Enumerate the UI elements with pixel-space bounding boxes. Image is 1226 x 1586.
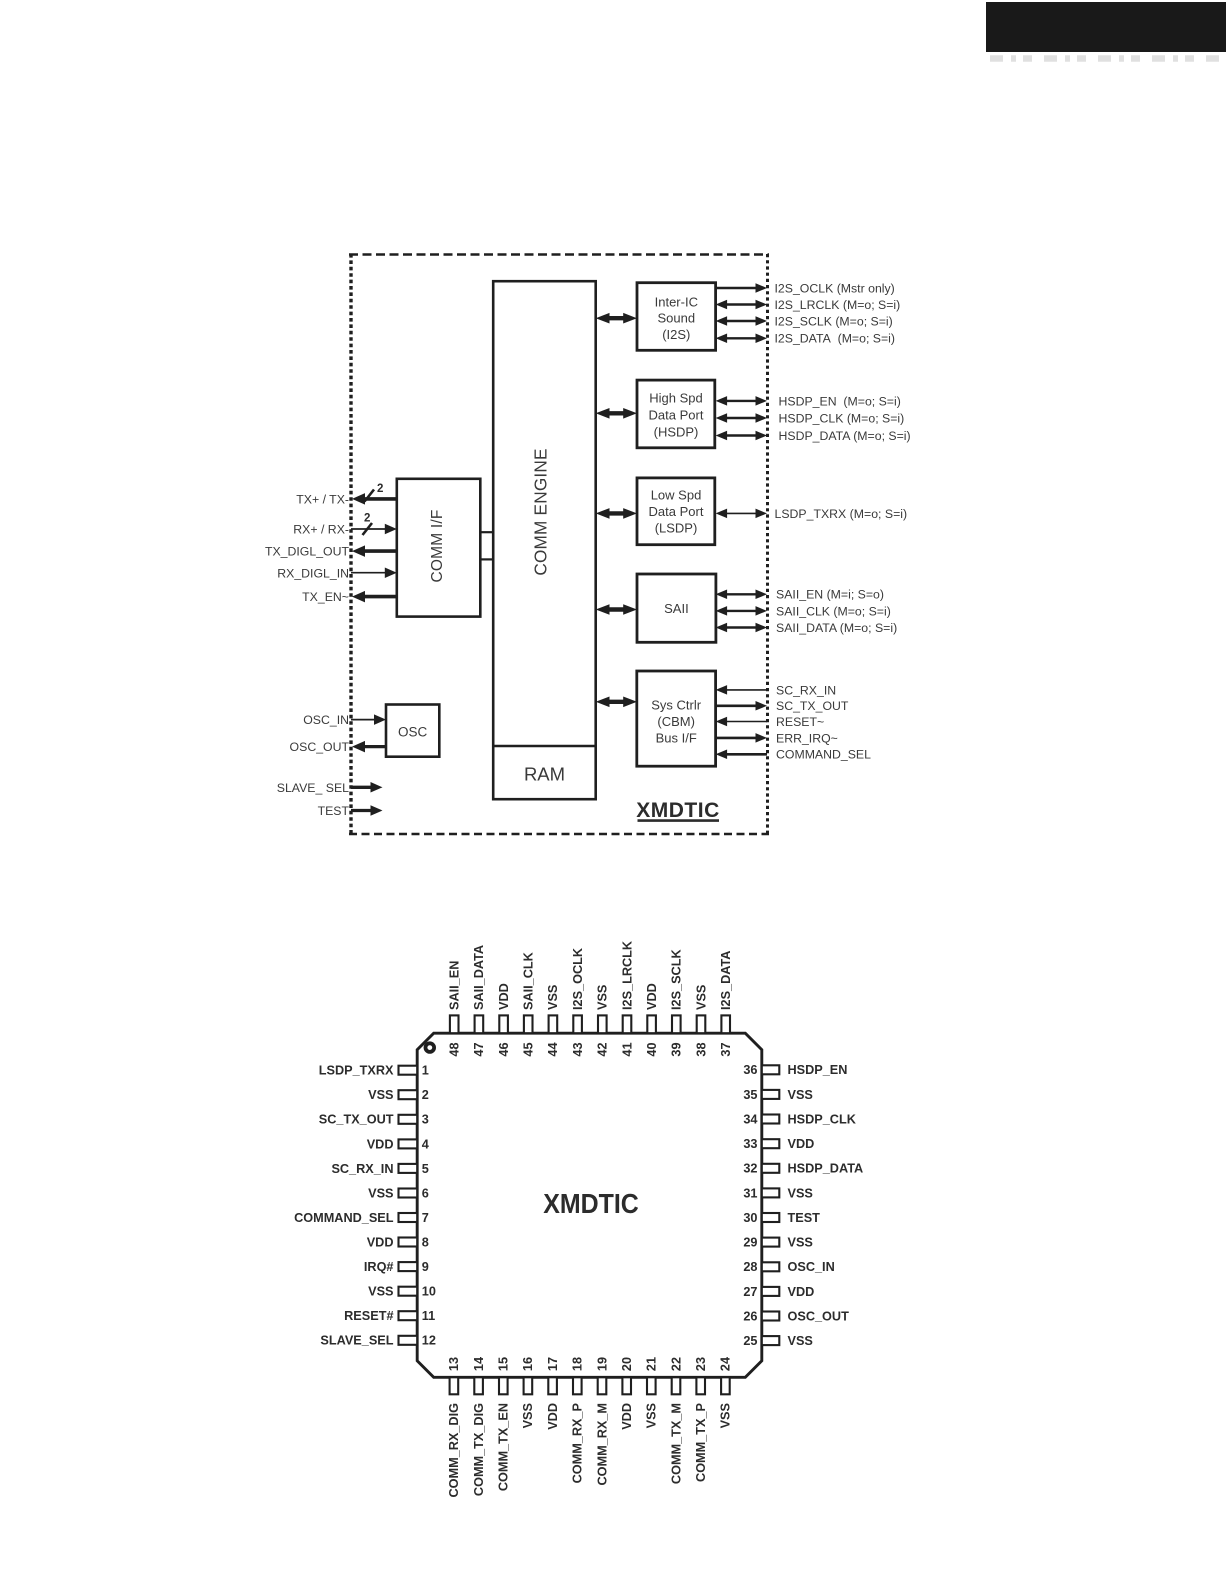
svg-text:COMM_TX_EN: COMM_TX_EN [497,1403,511,1491]
svg-text:21: 21 [645,1357,659,1371]
bus width slash "2" on TX pair [365,483,384,502]
pin 44 VSS (top) [546,985,560,1057]
pin 24 VSS (bottom) [719,1357,733,1428]
pin 46 VDD (top) [497,983,511,1056]
svg-text:10: 10 [422,1285,436,1299]
pin 33 VDD (right) [743,1137,814,1151]
svg-text:VDD: VDD [645,983,659,1010]
IC body (QFP-48) [417,1033,762,1377]
wire COMM ENGINE to Sys Ctrlr (bidirectional) [596,697,637,708]
svg-text:COMMAND_SEL: COMMAND_SEL [294,1211,394,1225]
svg-text:45: 45 [522,1042,536,1056]
svg-text:HSDP_EN: HSDP_EN [788,1063,848,1077]
wire COMM ENGINE to I2S (bidirectional) [596,313,637,324]
svg-text:RX+ / RX-: RX+ / RX- [293,523,349,537]
pin 2 VSS (left) [368,1088,429,1102]
svg-text:COMM I/F: COMM I/F [429,509,446,582]
pin 38 VSS (top) [694,985,708,1057]
svg-text:HSDP_DATA (M=o; S=i): HSDP_DATA (M=o; S=i) [779,429,911,443]
pin 48 SAII_EN (top) [448,961,462,1057]
svg-text:25: 25 [743,1334,757,1348]
svg-text:HSDP_EN (M=o; S=i): HSDP_EN (M=o; S=i) [779,394,901,408]
svg-text:IRQ#: IRQ# [364,1260,394,1274]
svg-text:VDD: VDD [546,1403,560,1430]
svg-text:19: 19 [595,1357,609,1371]
svg-text:TX+ / TX-: TX+ / TX- [296,493,349,507]
pin 7 COMMAND_SEL (left) [294,1211,429,1225]
wire OSC_IN [303,713,386,727]
wire TX_EN~ [302,590,397,604]
wire RX+ / RX- [293,523,397,537]
svg-text:SC_TX_OUT: SC_TX_OUT [319,1113,394,1127]
svg-text:33: 33 [743,1137,757,1151]
pin 45 SAII_CLK (top) [522,951,536,1056]
wire COMM ENGINE to SAII (bidirectional) [596,604,637,615]
pin 28 OSC_IN (right) [743,1260,834,1274]
svg-text:I2S_OCLK (Mstr only): I2S_OCLK (Mstr only) [775,281,895,295]
pin 37 I2S_DATA (top) [719,951,733,1057]
svg-text:RX_DIGL_IN: RX_DIGL_IN [277,566,349,580]
svg-text:VSS: VSS [645,1403,659,1428]
block Low Spd Data Port (LSDP) [637,478,715,545]
wire HSDP_EN [716,394,901,408]
pin 34 HSDP_CLK (right) [743,1112,856,1126]
wire SLAVE_SEL [277,781,383,795]
svg-text:26: 26 [743,1309,757,1323]
wire COMMAND_SEL [716,748,872,762]
svg-text:Sound: Sound [658,310,696,325]
svg-text:I2S_SCLK (M=o; S=i): I2S_SCLK (M=o; S=i) [775,314,893,328]
faded header text remnants [990,55,1226,62]
svg-text:SAII: SAII [664,601,689,616]
pin 31 VSS (right) [743,1186,813,1200]
svg-text:13: 13 [447,1357,461,1371]
svg-text:VDD: VDD [620,1403,634,1430]
svg-text:SAII_DATA: SAII_DATA [472,945,486,1010]
svg-text:COMM_TX_M: COMM_TX_M [669,1403,683,1484]
wire OSC_OUT [290,740,386,754]
svg-text:46: 46 [497,1042,511,1056]
pin 39 I2S_SCLK (top) [670,949,684,1057]
svg-text:OSC_OUT: OSC_OUT [788,1309,850,1323]
svg-text:44: 44 [546,1042,560,1056]
block COMM ENGINE [493,281,596,799]
pin 8 VDD (left) [367,1236,429,1250]
wire RESET~ [716,715,825,729]
svg-text:High Spd: High Spd [649,391,702,406]
svg-text:XMDTIC: XMDTIC [636,799,720,822]
svg-text:20: 20 [620,1357,634,1371]
svg-text:I2S_OCLK: I2S_OCLK [571,947,585,1010]
svg-text:17: 17 [546,1357,560,1371]
svg-text:24: 24 [719,1357,733,1371]
pin 21 VSS (bottom) [645,1357,659,1428]
svg-text:XMDTIC: XMDTIC [543,1188,639,1220]
wire TX+ / TX- [296,493,397,507]
block High Spd Data Port (HSDP) [637,380,715,448]
svg-text:SC_TX_OUT: SC_TX_OUT [776,699,849,713]
svg-text:27: 27 [743,1285,757,1299]
svg-text:VSS: VSS [521,1403,535,1428]
svg-text:11: 11 [422,1309,435,1323]
svg-text:Inter-IC: Inter-IC [655,294,698,309]
svg-text:VSS: VSS [368,1186,393,1200]
svg-text:32: 32 [743,1162,757,1176]
svg-text:RESET#: RESET# [344,1309,393,1323]
pin 3 SC_TX_OUT (left) [319,1113,429,1127]
svg-text:42: 42 [596,1042,610,1056]
wire SC_TX_OUT [716,699,849,713]
block COMM I/F [397,479,481,617]
redacted header bar [986,2,1226,52]
svg-text:COMM_TX_P: COMM_TX_P [694,1402,708,1481]
svg-text:4: 4 [422,1137,429,1151]
svg-text:(CBM): (CBM) [657,714,695,729]
svg-text:16: 16 [521,1357,535,1371]
label XMDTIC (block diagram) [636,799,720,822]
svg-text:VSS: VSS [694,985,708,1010]
pin 29 VSS (right) [743,1236,813,1250]
pin 23 COMM_TX_P (bottom) [694,1357,708,1482]
svg-text:Data Port: Data Port [649,504,704,519]
pin 32 HSDP_DATA (right) [743,1162,863,1176]
svg-text:SAII_DATA (M=o; S=i): SAII_DATA (M=o; S=i) [776,621,897,635]
wire COMM ENGINE to HSDP (bidirectional) [596,408,637,419]
wire TEST [318,804,383,818]
pin 15 COMM_TX_EN (bottom) [497,1357,511,1491]
svg-text:COMM_RX_P: COMM_RX_P [571,1402,585,1483]
svg-text:OSC_IN: OSC_IN [303,713,349,727]
block SAII [637,574,716,642]
svg-text:COMM_TX_DIG: COMM_TX_DIG [472,1403,486,1496]
svg-text:TX_EN~: TX_EN~ [302,590,349,604]
pin 43 I2S_OCLK (top) [571,947,585,1056]
svg-text:18: 18 [571,1357,585,1371]
svg-text:RESET~: RESET~ [776,715,824,729]
svg-text:SLAVE_SEL: SLAVE_SEL [320,1334,393,1348]
pin 42 VSS (top) [596,985,610,1057]
svg-text:47: 47 [472,1042,486,1056]
pin 13 COMM_RX_DIG (bottom) [447,1357,461,1498]
svg-text:VDD: VDD [788,1137,815,1151]
pin 22 COMM_TX_M (bottom) [669,1357,683,1484]
svg-text:43: 43 [571,1042,585,1056]
svg-text:31: 31 [743,1186,757,1200]
wire RX_DIGL_IN [277,566,397,580]
svg-text:VSS: VSS [546,985,560,1010]
pin 26 OSC_OUT (right) [743,1309,849,1323]
wire SAII_CLK [716,604,891,618]
svg-text:12: 12 [422,1334,436,1348]
svg-text:41: 41 [620,1042,634,1056]
svg-text:SAII_EN: SAII_EN [448,961,462,1010]
svg-text:5: 5 [422,1162,429,1176]
pin 47 SAII_DATA (top) [472,945,486,1057]
pin 1 index marker [424,1041,436,1053]
pin 35 VSS (right) [743,1088,813,1102]
svg-text:COMM_RX_M: COMM_RX_M [595,1403,609,1485]
wire SAII_EN [716,588,884,602]
svg-text:30: 30 [743,1211,757,1225]
svg-text:VSS: VSS [788,1334,813,1348]
block RAM [493,746,596,785]
pin 5 SC_RX_IN (left) [331,1162,428,1176]
svg-text:SLAVE_ SEL: SLAVE_ SEL [277,781,349,795]
svg-text:I2S_DATA (M=o; S=i): I2S_DATA (M=o; S=i) [775,332,896,346]
svg-text:40: 40 [645,1042,659,1056]
svg-text:OSC: OSC [398,724,428,739]
pin 17 VDD (bottom) [546,1357,560,1430]
svg-text:38: 38 [694,1042,708,1056]
svg-text:I2S_LRCLK (M=o; S=i): I2S_LRCLK (M=o; S=i) [775,298,901,312]
wire SC_RX_IN [716,683,837,697]
svg-text:1: 1 [422,1064,429,1078]
svg-text:8: 8 [422,1236,429,1250]
svg-text:I2S_DATA: I2S_DATA [719,951,733,1010]
svg-text:RAM: RAM [524,764,565,785]
svg-text:I2S_SCLK: I2S_SCLK [670,949,684,1010]
svg-text:6: 6 [422,1186,429,1200]
block Inter-IC Sound (I2S) [637,283,716,351]
svg-text:Sys Ctrlr: Sys Ctrlr [651,698,702,713]
svg-text:VSS: VSS [788,1186,813,1200]
svg-text:(HSDP): (HSDP) [654,425,699,440]
svg-text:3: 3 [422,1113,429,1127]
pin 14 COMM_TX_DIG (bottom) [472,1357,486,1496]
svg-text:9: 9 [422,1260,429,1274]
svg-text:OSC_OUT: OSC_OUT [290,740,350,754]
svg-text:HSDP_CLK (M=o; S=i): HSDP_CLK (M=o; S=i) [779,411,905,425]
wire LSDP_TXRX [716,507,907,521]
pin 1 LSDP_TXRX (left) [319,1064,429,1078]
svg-text:34: 34 [743,1112,757,1126]
pin 27 VDD (right) [743,1285,814,1299]
svg-text:I2S_LRCLK: I2S_LRCLK [620,940,634,1010]
svg-text:VDD: VDD [367,1137,394,1151]
wire I2S_SCLK [716,314,893,328]
svg-text:Data Port: Data Port [649,408,704,423]
pin 4 VDD (left) [367,1137,429,1151]
pin 10 VSS (left) [368,1285,436,1299]
svg-text:Bus I/F: Bus I/F [656,731,697,746]
svg-text:48: 48 [448,1042,462,1056]
svg-text:ERR_IRQ~: ERR_IRQ~ [776,731,838,745]
svg-text:29: 29 [743,1236,757,1250]
svg-text:VSS: VSS [788,1236,813,1250]
svg-text:14: 14 [472,1357,486,1371]
svg-text:COMM_RX_DIG: COMM_RX_DIG [447,1403,461,1498]
svg-text:VDD: VDD [497,983,511,1010]
svg-text:23: 23 [694,1357,708,1371]
wire I2S_LRCLK [716,298,901,312]
svg-text:VSS: VSS [719,1403,733,1428]
svg-text:VDD: VDD [788,1285,815,1299]
pin 25 VSS (right) [743,1334,813,1348]
svg-text:SC_RX_IN: SC_RX_IN [331,1162,393,1176]
pin 12 SLAVE_SEL (left) [320,1334,436,1348]
svg-text:28: 28 [743,1260,757,1274]
block Sys Ctrlr (CBM) Bus I/F [637,671,716,766]
svg-text:HSDP_DATA: HSDP_DATA [788,1162,864,1176]
pin 18 COMM_RX_P (bottom) [571,1357,585,1483]
svg-text:TEST: TEST [318,804,350,818]
bus width slash "2" on RX pair [363,513,373,536]
svg-text:HSDP_CLK: HSDP_CLK [788,1112,857,1126]
svg-text:VSS: VSS [368,1088,393,1102]
svg-text:2: 2 [377,483,383,495]
pin 40 VDD (top) [645,983,659,1056]
wire I2S_DATA [716,332,895,346]
wire ERR_IRQ~ [716,731,838,745]
pin 36 HSDP_EN (right) [743,1063,847,1077]
pin 9 IRQ# (left) [364,1260,429,1274]
svg-text:LSDP_TXRX: LSDP_TXRX [319,1064,394,1078]
svg-text:36: 36 [743,1063,757,1077]
wire HSDP_CLK [716,411,905,425]
wire TX_DIGL_OUT [265,545,397,559]
svg-text:SAII_CLK (M=o; S=i): SAII_CLK (M=o; S=i) [776,604,891,618]
svg-text:COMMAND_SEL: COMMAND_SEL [776,748,871,762]
svg-text:(I2S): (I2S) [662,327,690,342]
svg-text:SAII_EN (M=i; S=o): SAII_EN (M=i; S=o) [776,588,884,602]
svg-text:VSS: VSS [788,1088,813,1102]
svg-text:VSS: VSS [596,985,610,1010]
svg-text:OSC_IN: OSC_IN [788,1260,835,1274]
svg-text:22: 22 [669,1357,683,1371]
wire COMM ENGINE to LSDP (bidirectional) [596,508,637,519]
svg-text:2: 2 [422,1088,429,1102]
block OSC [386,705,439,757]
bus COMM I/F to COMM ENGINE [480,532,493,559]
svg-text:LSDP_TXRX (M=o; S=i): LSDP_TXRX (M=o; S=i) [775,507,908,521]
svg-text:(LSDP): (LSDP) [655,520,698,535]
svg-text:7: 7 [422,1211,429,1225]
pin 41 I2S_LRCLK (top) [620,940,634,1056]
svg-text:15: 15 [497,1357,511,1371]
wire I2S_OCLK [716,281,895,295]
pin 30 TEST (right) [743,1211,820,1225]
dashed chip boundary (block diagram) [349,254,769,835]
svg-text:37: 37 [719,1042,733,1056]
svg-text:Low Spd: Low Spd [651,487,702,502]
pin 11 RESET# (left) [344,1309,435,1323]
wire SAII_DATA [716,621,898,635]
svg-text:VDD: VDD [367,1236,394,1250]
svg-text:COMM ENGINE: COMM ENGINE [531,448,551,575]
wire HSDP_DATA [716,429,911,443]
pin 6 VSS (left) [368,1186,429,1200]
svg-text:39: 39 [670,1042,684,1056]
svg-text:2: 2 [364,513,370,525]
svg-text:TEST: TEST [788,1211,821,1225]
svg-text:SAII_CLK: SAII_CLK [522,951,536,1010]
pin 20 VDD (bottom) [620,1357,634,1430]
pin 16 VSS (bottom) [521,1357,535,1428]
pin 19 COMM_RX_M (bottom) [595,1357,609,1486]
svg-text:35: 35 [743,1088,757,1102]
svg-text:VSS: VSS [368,1285,393,1299]
svg-text:SC_RX_IN: SC_RX_IN [776,683,836,697]
svg-text:TX_DIGL_OUT: TX_DIGL_OUT [265,545,350,559]
